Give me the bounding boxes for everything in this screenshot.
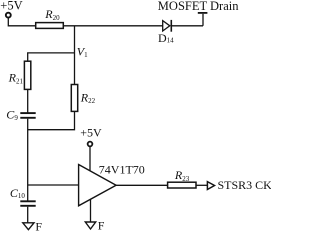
svg-text:R21: R21 xyxy=(8,71,24,86)
svg-text:+5V: +5V xyxy=(0,0,22,13)
svg-text:74V1T70: 74V1T70 xyxy=(99,162,145,176)
wire C10 to ground F xyxy=(27,207,29,223)
wire R21 to C9 xyxy=(27,89,29,112)
op-amp U1 74V1T70 xyxy=(79,162,145,205)
wire: main vertical from top wire to R22 xyxy=(74,26,76,85)
svg-text:C10: C10 xyxy=(10,186,26,200)
ground F (left) xyxy=(23,220,43,234)
capacitor C9 xyxy=(6,107,35,121)
wire: input to buffer xyxy=(28,184,79,186)
wire from +5V terminal to R20 xyxy=(8,18,35,26)
MOSFET Drain terminal xyxy=(158,0,239,26)
resistor R21 xyxy=(8,61,31,89)
power +5V (buffer supply) xyxy=(80,126,102,147)
wire +5V to buffer top edge xyxy=(89,147,91,172)
output arrow STSR3 CK xyxy=(207,178,272,192)
wire R22 bottom to junction on C9 line xyxy=(28,111,75,129)
wire R23 to output arrow xyxy=(196,184,207,186)
svg-text:V1: V1 xyxy=(77,45,88,60)
resistor R20 xyxy=(36,7,64,28)
svg-text:R20: R20 xyxy=(44,7,60,22)
capacitor C10 xyxy=(10,186,36,206)
resistor R22 xyxy=(71,85,95,112)
svg-text:R22: R22 xyxy=(80,90,96,105)
wire: left vertical C9 to C10 junction xyxy=(27,119,29,201)
wire R20 to diode D14 anode xyxy=(63,25,162,27)
resistor R23 xyxy=(168,168,196,188)
diode D14 xyxy=(158,20,174,45)
wire branch to R21 xyxy=(28,53,75,61)
power +5V terminal (top left) xyxy=(0,0,22,18)
svg-text:C9: C9 xyxy=(6,107,18,121)
svg-text:F: F xyxy=(98,218,105,232)
svg-text:F: F xyxy=(35,220,42,233)
wire buffer output to R23 xyxy=(116,184,168,186)
svg-text:STSR3 CK: STSR3 CK xyxy=(218,178,272,192)
svg-text:+5V: +5V xyxy=(80,126,102,140)
wire diode cathode to MOSFET Drain stub xyxy=(171,25,203,27)
svg-text:D14: D14 xyxy=(158,31,174,45)
wire buffer bottom edge to ground F xyxy=(90,199,92,222)
svg-text:MOSFET Drain: MOSFET Drain xyxy=(158,0,239,13)
svg-text:R23: R23 xyxy=(174,168,190,183)
ground F (right) xyxy=(85,218,104,232)
